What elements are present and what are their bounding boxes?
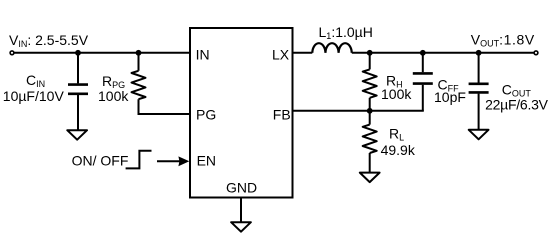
wire GND pin [240,198,242,221]
svg-text:ON/ OFF: ON/ OFF [72,153,129,169]
ground RL [360,173,380,183]
junction CIN [75,50,81,56]
wire FB line [292,110,424,112]
svg-text:IN: IN [196,47,210,63]
resistor RL [363,111,377,172]
junction FB-RL [367,108,373,114]
ground COUT [469,130,489,140]
svg-text:100k: 100k [98,88,129,104]
junction RPG [136,50,142,56]
junction COUT [476,50,482,56]
svg-text:PG: PG [196,107,216,123]
junction CFF [420,50,426,56]
resistor RPG [132,53,191,114]
wire input rail [14,52,190,54]
ground GND pin [231,222,251,232]
node VIN terminal [10,51,14,55]
inductor L1 [312,43,351,53]
svg-text:LX: LX [272,47,290,63]
svg-text:100k: 100k [381,86,412,102]
svg-text:FB: FB [273,107,291,123]
junction RH [367,50,373,56]
capacitor COUT [469,53,489,129]
svg-text:49.9k: 49.9k [381,142,416,158]
wire output rail [352,52,534,54]
svg-text:10µF/10V: 10µF/10V [3,88,65,104]
svg-text:GND: GND [226,179,257,195]
svg-text:22µF/6.3V: 22µF/6.3V [485,97,549,113]
IC regulator box [190,28,293,198]
capacitor CFF [413,53,433,111]
svg-text:EN: EN [197,152,216,168]
capacitor CIN [68,53,88,130]
EN rising-edge symbol [126,151,152,169]
EN arrow [157,156,189,166]
svg-text:10pF: 10pF [434,89,466,105]
wire LX stub [292,52,312,54]
resistor RH [363,53,377,111]
ground CIN [67,130,87,140]
node VOUT terminal [534,51,538,55]
